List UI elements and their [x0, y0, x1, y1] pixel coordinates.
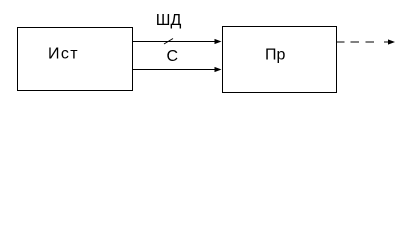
svg-text:С: С — [167, 48, 179, 65]
arrowhead dashed output — [388, 39, 395, 44]
block Ист (source box) — [18, 28, 133, 91]
wire dashed output arrow tail segment — [384, 41, 390, 43]
svg-text:Ист: Ист — [48, 46, 79, 63]
block Пр (receiver box) — [223, 27, 337, 93]
wire ШД bus arrow (top) — [133, 41, 216, 43]
arrowhead С — [215, 67, 222, 72]
wire С clock arrow (bottom) — [133, 69, 216, 71]
bus slash mark — [164, 39, 173, 45]
arrowhead ШД bus — [215, 39, 222, 44]
svg-text:Пр: Пр — [265, 47, 286, 64]
wire dashed output arrow — [336, 41, 374, 43]
svg-text:ШД: ШД — [156, 12, 182, 29]
